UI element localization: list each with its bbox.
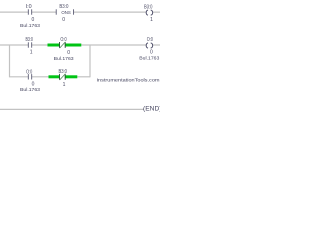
wire rung 1 ONS to coil [74, 11, 146, 13]
svg-text:B3:0: B3:0 [58, 69, 67, 75]
contact XIC I:0 rung 1 [28, 9, 31, 14]
wire rung 1 contact to ONS [32, 11, 57, 13]
wire rung 2 right stub [153, 44, 160, 46]
green highlight right segment XIO O:0 [65, 44, 82, 47]
svg-text:I:0: I:0 [26, 4, 32, 10]
svg-text:ONS: ONS [61, 10, 71, 16]
wire rung 1 right stub [153, 11, 160, 13]
svg-text:Bul.1763: Bul.1763 [139, 56, 159, 61]
contact XIC B3:0 rung 2 [28, 42, 31, 47]
branch wire left segment [10, 76, 29, 78]
svg-text:Bul.1763: Bul.1763 [20, 87, 40, 92]
svg-text:InstrumentationTools.com: InstrumentationTools.com [97, 78, 160, 83]
svg-text:Bul.1763: Bul.1763 [20, 23, 40, 28]
svg-text:(END): (END) [143, 106, 160, 112]
svg-text:1: 1 [150, 17, 153, 23]
svg-text:O:0: O:0 [26, 69, 32, 75]
svg-text:B3:0: B3:0 [144, 4, 153, 10]
green highlight right segment XIO B3:0 branch [65, 75, 78, 78]
svg-text:0: 0 [62, 17, 65, 23]
svg-text:B3:0: B3:0 [25, 37, 33, 43]
wire END rung [0, 108, 144, 110]
wire rung 2 green to coil [81, 44, 146, 46]
green highlight left segment XIO B3:0 branch [49, 75, 60, 78]
coil OTE O:0 rung 2 [146, 43, 152, 48]
one-shot ONS B3:0 rung 1 [56, 9, 73, 16]
svg-text:Bul.1763: Bul.1763 [54, 56, 74, 61]
contact XIO O:0 rung 2 (energized) [60, 42, 66, 48]
contact XIO B3:0 branch (energized) [60, 74, 66, 80]
green highlight left segment XIO O:0 [48, 44, 60, 47]
branch left vertical wire [9, 45, 11, 78]
coil OTE B3:0 rung 1 [146, 10, 152, 15]
branch right vertical wire [89, 45, 91, 78]
svg-text:O:0: O:0 [147, 37, 153, 43]
wire rung 2 left segment [0, 44, 28, 46]
svg-text:O:0: O:0 [60, 37, 66, 43]
wire rung 2 contact to green [32, 44, 48, 46]
branch wire green to right vertical [77, 76, 90, 78]
svg-text:B3:0: B3:0 [59, 4, 68, 10]
wire rung 1 left segment [0, 11, 28, 13]
svg-text:1: 1 [63, 82, 66, 88]
branch wire contact to green [32, 76, 49, 78]
svg-text:1: 1 [30, 50, 33, 56]
contact XIC O:0 branch [28, 74, 31, 79]
